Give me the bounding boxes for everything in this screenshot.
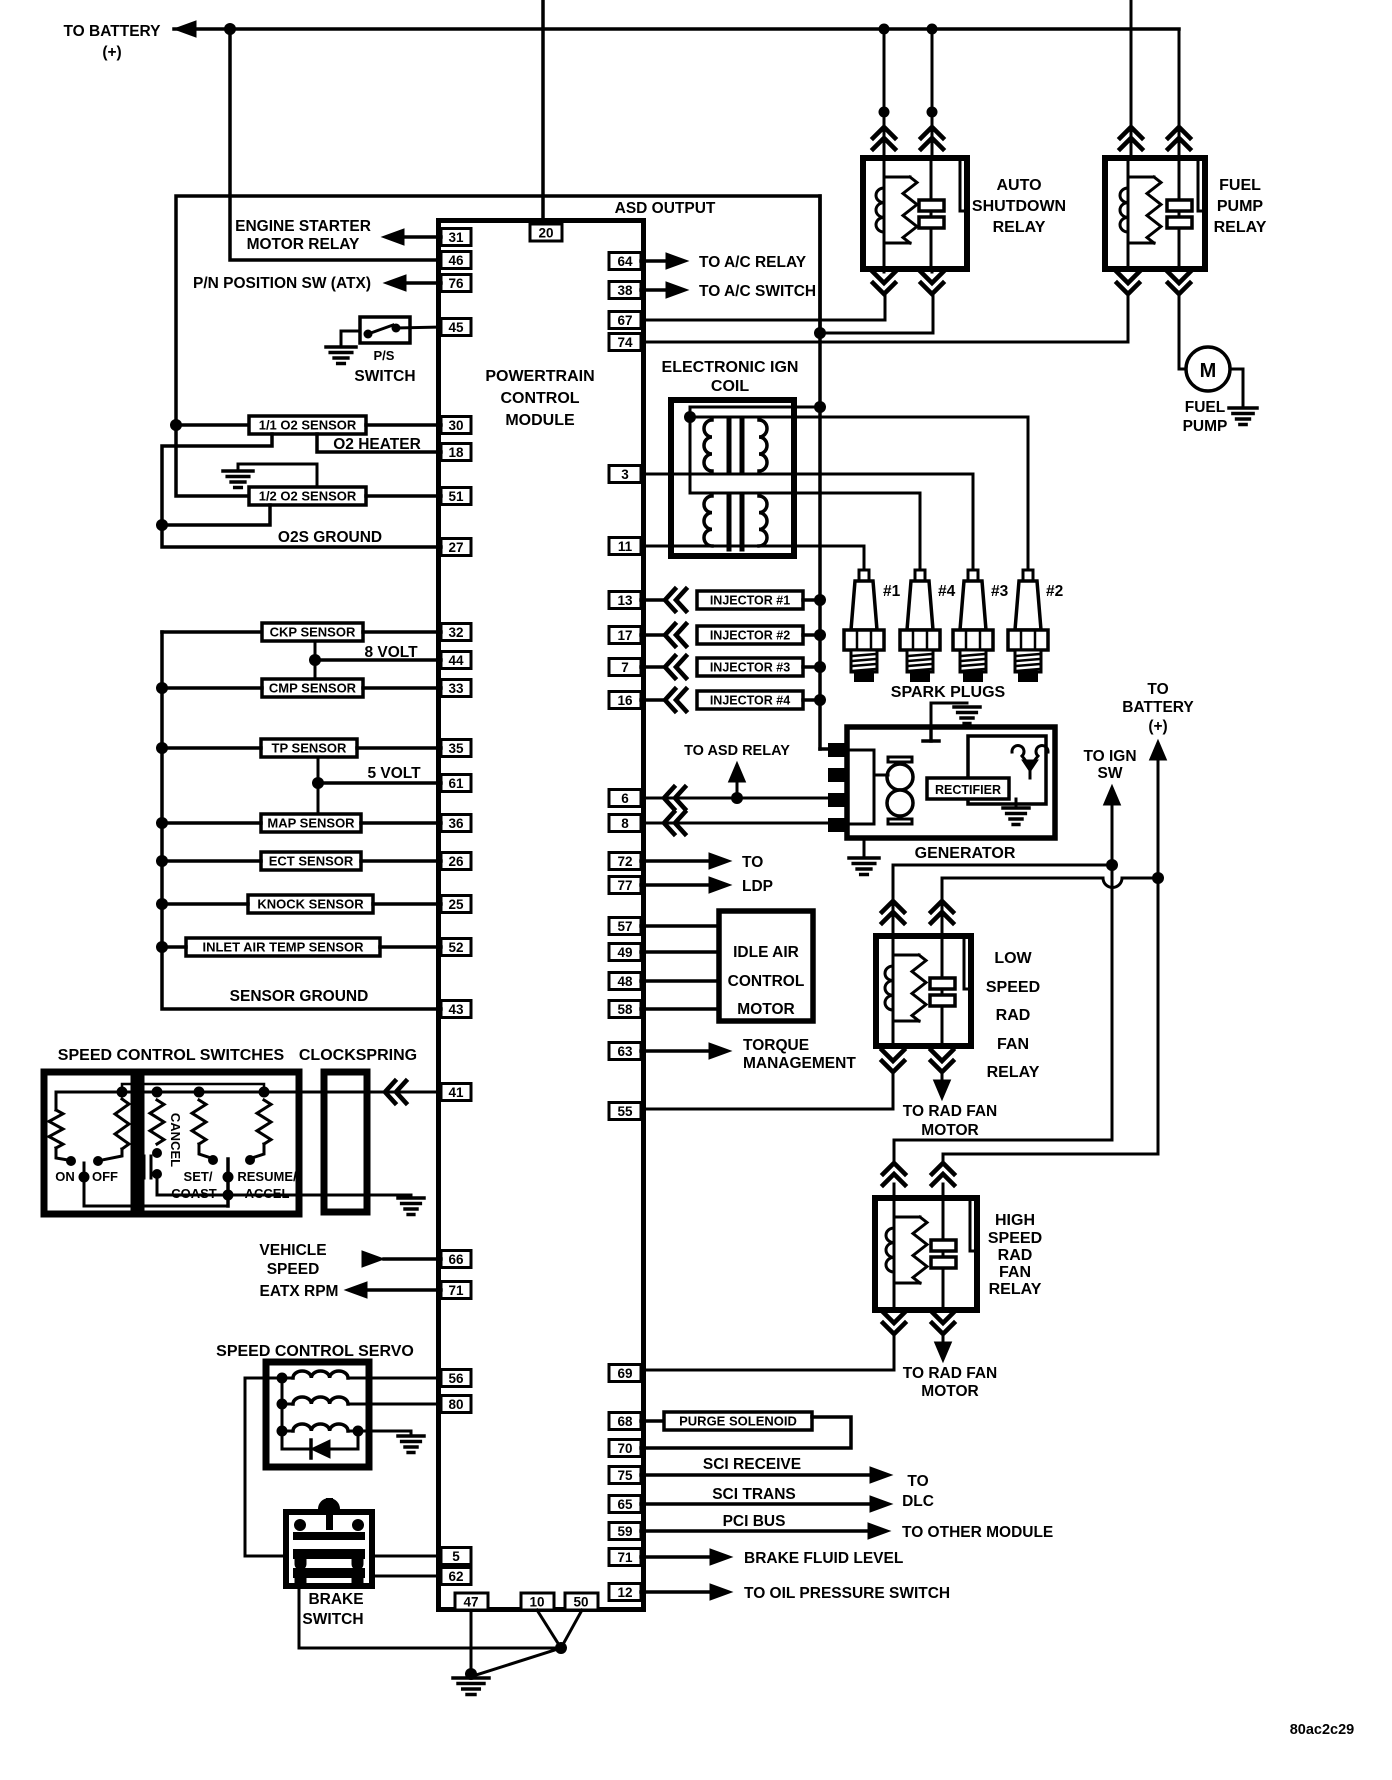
svg-text:CANCEL: CANCEL	[168, 1113, 183, 1167]
svg-text:49: 49	[617, 945, 632, 960]
svg-text:#4: #4	[938, 583, 956, 600]
svg-text:65: 65	[617, 1497, 633, 1512]
svg-text:LOW: LOW	[994, 950, 1032, 967]
svg-text:50: 50	[573, 1595, 588, 1610]
svg-text:1/1 O2 SENSOR: 1/1 O2 SENSOR	[259, 418, 357, 433]
svg-text:35: 35	[448, 741, 464, 756]
svg-text:SWITCH: SWITCH	[302, 1611, 363, 1628]
svg-text:32: 32	[448, 625, 463, 640]
svg-text:TO OIL PRESSURE SWITCH: TO OIL PRESSURE SWITCH	[744, 1585, 950, 1602]
svg-text:CKP SENSOR: CKP SENSOR	[270, 625, 356, 640]
svg-text:PURGE SOLENOID: PURGE SOLENOID	[679, 1414, 797, 1429]
svg-text:O2S GROUND: O2S GROUND	[278, 529, 382, 546]
svg-text:TP SENSOR: TP SENSOR	[272, 741, 348, 756]
svg-text:57: 57	[617, 919, 632, 934]
svg-text:(+): (+)	[1148, 718, 1167, 735]
svg-text:P/S: P/S	[374, 348, 395, 363]
svg-text:7: 7	[621, 660, 629, 675]
svg-text:SPEED CONTROL SWITCHES: SPEED CONTROL SWITCHES	[58, 1047, 285, 1064]
svg-text:30: 30	[448, 418, 463, 433]
svg-text:INJECTOR #3: INJECTOR #3	[710, 661, 790, 675]
svg-text:25: 25	[448, 897, 464, 912]
svg-text:5: 5	[452, 1549, 460, 1564]
svg-text:INJECTOR #1: INJECTOR #1	[710, 594, 790, 608]
svg-text:RELAY: RELAY	[1214, 219, 1267, 236]
svg-text:HIGH: HIGH	[995, 1212, 1035, 1229]
svg-text:RELAY: RELAY	[987, 1064, 1040, 1081]
svg-text:LDP: LDP	[742, 878, 773, 895]
svg-text:#2: #2	[1046, 583, 1063, 600]
svg-text:PCI BUS: PCI BUS	[723, 1513, 786, 1530]
svg-text:EATX RPM: EATX RPM	[260, 1283, 339, 1300]
svg-text:47: 47	[463, 1595, 478, 1610]
svg-text:75: 75	[617, 1468, 633, 1483]
svg-text:52: 52	[448, 940, 463, 955]
svg-text:INJECTOR #4: INJECTOR #4	[710, 694, 790, 708]
svg-text:TO: TO	[742, 854, 763, 871]
svg-text:ECT SENSOR: ECT SENSOR	[269, 854, 354, 869]
svg-text:18: 18	[448, 445, 464, 460]
svg-text:GENERATOR: GENERATOR	[915, 845, 1016, 862]
svg-text:77: 77	[617, 878, 632, 893]
svg-text:IDLE AIR: IDLE AIR	[733, 944, 799, 961]
svg-text:TO A/C RELAY: TO A/C RELAY	[699, 254, 807, 271]
svg-text:SPEED: SPEED	[988, 1230, 1042, 1247]
svg-text:27: 27	[448, 540, 463, 555]
svg-text:ENGINE STARTER: ENGINE STARTER	[235, 218, 371, 235]
svg-text:80: 80	[448, 1397, 463, 1412]
svg-text:68: 68	[617, 1414, 633, 1429]
svg-text:58: 58	[617, 1002, 633, 1017]
svg-text:CLOCKSPRING: CLOCKSPRING	[299, 1047, 417, 1064]
svg-text:MANAGEMENT: MANAGEMENT	[743, 1055, 856, 1072]
svg-text:8: 8	[621, 816, 629, 831]
svg-text:MOTOR: MOTOR	[737, 1001, 794, 1018]
svg-text:SET/: SET/	[184, 1169, 213, 1184]
svg-text:45: 45	[448, 320, 464, 335]
svg-text:RAD: RAD	[996, 1007, 1031, 1024]
svg-text:SWITCH: SWITCH	[354, 368, 415, 385]
svg-text:MOTOR: MOTOR	[921, 1383, 978, 1400]
svg-text:BATTERY: BATTERY	[1122, 699, 1194, 716]
svg-text:55: 55	[617, 1104, 633, 1119]
svg-text:70: 70	[617, 1441, 632, 1456]
svg-text:RECTIFIER: RECTIFIER	[935, 783, 1001, 797]
svg-text:TO OTHER MODULE: TO OTHER MODULE	[902, 1524, 1053, 1541]
svg-text:POWERTRAIN: POWERTRAIN	[485, 368, 594, 385]
svg-text:59: 59	[617, 1524, 632, 1539]
svg-text:(+): (+)	[102, 44, 121, 61]
svg-text:17: 17	[617, 628, 632, 643]
svg-text:MODULE: MODULE	[505, 412, 575, 429]
svg-text:41: 41	[448, 1085, 464, 1100]
svg-text:FUEL: FUEL	[1185, 399, 1225, 416]
svg-text:80ac2c29: 80ac2c29	[1290, 1722, 1355, 1738]
svg-text:TO RAD FAN: TO RAD FAN	[903, 1103, 997, 1120]
svg-text:M: M	[1200, 360, 1217, 382]
svg-text:20: 20	[538, 226, 553, 241]
svg-text:51: 51	[448, 489, 464, 504]
svg-text:69: 69	[617, 1366, 632, 1381]
svg-text:BRAKE: BRAKE	[308, 1591, 363, 1608]
svg-text:10: 10	[529, 1595, 544, 1610]
svg-text:P/N POSITION SW (ATX): P/N POSITION SW (ATX)	[193, 275, 371, 292]
svg-text:SHUTDOWN: SHUTDOWN	[972, 198, 1066, 215]
svg-text:6: 6	[621, 791, 629, 806]
svg-text:CONTROL: CONTROL	[728, 973, 805, 990]
svg-text:INJECTOR #2: INJECTOR #2	[710, 629, 790, 643]
svg-text:FAN: FAN	[999, 1264, 1031, 1281]
svg-text:PUMP: PUMP	[1217, 198, 1264, 215]
svg-text:TO A/C SWITCH: TO A/C SWITCH	[699, 283, 816, 300]
svg-text:48: 48	[617, 974, 633, 989]
svg-text:46: 46	[448, 253, 464, 268]
svg-text:63: 63	[617, 1044, 633, 1059]
svg-text:71: 71	[448, 1283, 464, 1298]
svg-text:FUEL: FUEL	[1219, 177, 1261, 194]
svg-text:CONTROL: CONTROL	[500, 390, 579, 407]
svg-text:74: 74	[617, 335, 633, 350]
svg-text:DLC: DLC	[902, 1493, 934, 1510]
svg-text:33: 33	[448, 681, 464, 696]
svg-text:SPARK PLUGS: SPARK PLUGS	[891, 684, 1006, 701]
svg-text:ON: ON	[55, 1169, 75, 1184]
svg-text:38: 38	[617, 283, 633, 298]
svg-text:72: 72	[617, 854, 632, 869]
svg-text:MAP SENSOR: MAP SENSOR	[267, 816, 355, 831]
svg-text:62: 62	[448, 1569, 463, 1584]
svg-text:RELAY: RELAY	[993, 219, 1046, 236]
svg-text:RELAY: RELAY	[989, 1281, 1042, 1298]
svg-text:56: 56	[448, 1371, 464, 1386]
svg-text:SPEED: SPEED	[267, 1261, 320, 1278]
svg-text:COAST: COAST	[171, 1186, 217, 1201]
svg-text:PUMP: PUMP	[1183, 418, 1228, 435]
svg-text:43: 43	[448, 1002, 464, 1017]
svg-text:SPEED CONTROL SERVO: SPEED CONTROL SERVO	[216, 1343, 414, 1360]
svg-text:TO: TO	[1147, 681, 1168, 698]
svg-text:AUTO: AUTO	[996, 177, 1041, 194]
svg-text:31: 31	[448, 230, 464, 245]
svg-text:12: 12	[617, 1585, 632, 1600]
svg-text:66: 66	[448, 1252, 464, 1267]
svg-text:1/2 O2 SENSOR: 1/2 O2 SENSOR	[259, 489, 357, 504]
svg-text:FAN: FAN	[997, 1036, 1029, 1053]
svg-text:36: 36	[448, 816, 464, 831]
svg-text:16: 16	[617, 693, 633, 708]
svg-text:11: 11	[618, 539, 633, 554]
svg-text:OFF: OFF	[92, 1169, 118, 1184]
svg-text:67: 67	[617, 313, 632, 328]
svg-text:SCI RECEIVE: SCI RECEIVE	[703, 1456, 801, 1473]
svg-text:SW: SW	[1098, 765, 1123, 782]
svg-text:61: 61	[448, 776, 464, 791]
svg-text:ELECTRONIC IGN: ELECTRONIC IGN	[662, 359, 799, 376]
svg-text:#1: #1	[883, 583, 901, 600]
svg-text:SCI TRANS: SCI TRANS	[712, 1486, 796, 1503]
svg-text:71: 71	[617, 1550, 633, 1565]
svg-text:64: 64	[617, 254, 633, 269]
svg-text:BRAKE FLUID LEVEL: BRAKE FLUID LEVEL	[744, 1550, 903, 1567]
svg-text:5 VOLT: 5 VOLT	[367, 765, 421, 782]
svg-text:26: 26	[448, 854, 464, 869]
svg-text:VEHICLE: VEHICLE	[259, 1242, 326, 1259]
svg-text:SPEED: SPEED	[986, 979, 1040, 996]
svg-text:RESUME/: RESUME/	[237, 1169, 297, 1184]
svg-text:KNOCK SENSOR: KNOCK SENSOR	[257, 897, 364, 912]
svg-text:ASD OUTPUT: ASD OUTPUT	[615, 200, 716, 217]
svg-text:3: 3	[621, 467, 629, 482]
svg-text:TO IGN: TO IGN	[1083, 748, 1136, 765]
svg-text:COIL: COIL	[711, 378, 749, 395]
svg-text:TO ASD RELAY: TO ASD RELAY	[684, 743, 790, 759]
svg-text:44: 44	[448, 653, 464, 668]
svg-text:13: 13	[617, 593, 633, 608]
svg-text:MOTOR: MOTOR	[921, 1122, 978, 1139]
svg-text:INLET AIR TEMP SENSOR: INLET AIR TEMP SENSOR	[202, 940, 364, 955]
svg-text:TORQUE: TORQUE	[743, 1037, 809, 1054]
svg-text:76: 76	[448, 276, 464, 291]
svg-text:TO RAD FAN: TO RAD FAN	[903, 1365, 997, 1382]
svg-text:#3: #3	[991, 583, 1009, 600]
svg-text:MOTOR RELAY: MOTOR RELAY	[247, 236, 360, 253]
svg-text:RAD: RAD	[998, 1247, 1033, 1264]
svg-text:CMP SENSOR: CMP SENSOR	[269, 681, 357, 696]
svg-text:TO: TO	[907, 1473, 928, 1490]
svg-text:SENSOR GROUND: SENSOR GROUND	[230, 988, 369, 1005]
svg-text:TO BATTERY: TO BATTERY	[63, 23, 161, 40]
